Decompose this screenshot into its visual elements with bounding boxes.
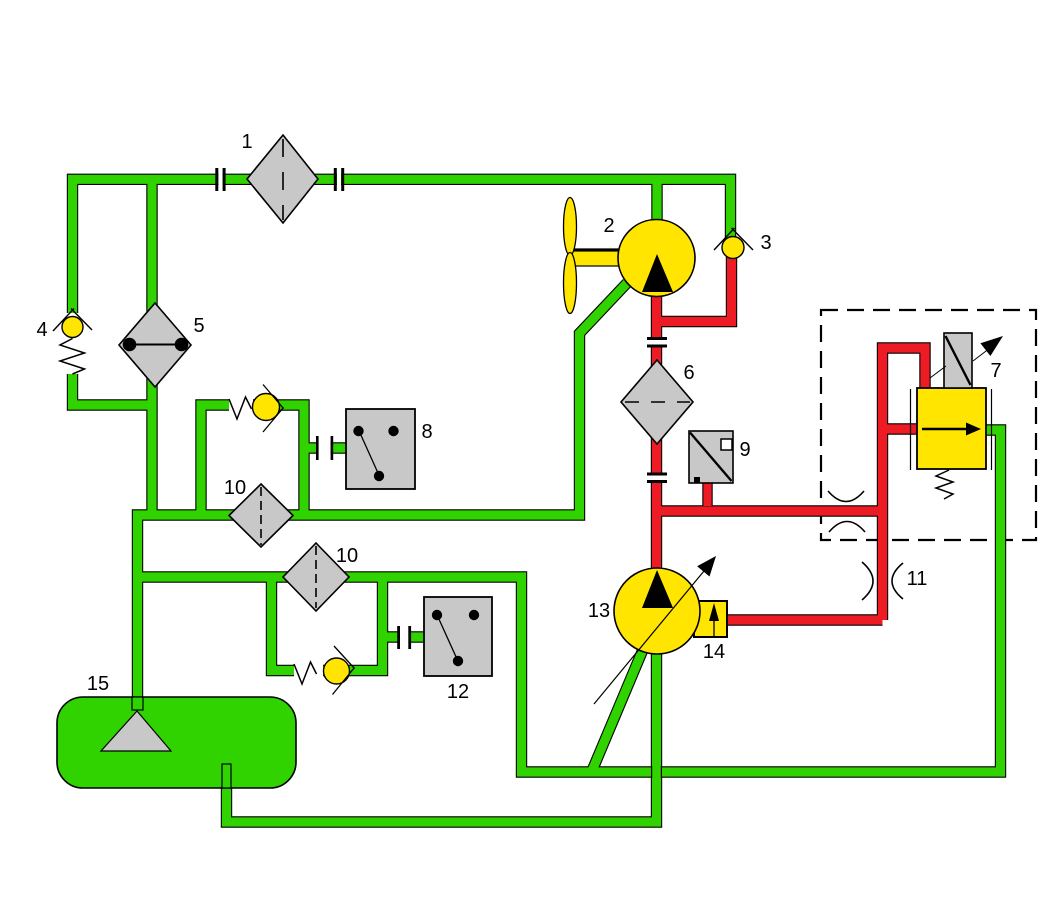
svg-text:7: 7	[990, 360, 1001, 382]
svg-text:8: 8	[421, 421, 432, 443]
svg-text:1: 1	[241, 131, 252, 153]
svg-text:2: 2	[603, 215, 614, 237]
svg-text:4: 4	[36, 319, 47, 341]
svg-text:6: 6	[683, 362, 694, 384]
svg-text:9: 9	[739, 439, 750, 461]
svg-text:14: 14	[703, 641, 725, 663]
svg-text:13: 13	[588, 600, 610, 622]
svg-text:12: 12	[447, 681, 469, 703]
svg-text:3: 3	[760, 232, 771, 254]
svg-text:10: 10	[224, 477, 246, 499]
svg-text:11: 11	[907, 568, 928, 590]
svg-text:5: 5	[193, 315, 204, 337]
svg-text:15: 15	[87, 673, 109, 695]
svg-text:10: 10	[336, 545, 358, 567]
